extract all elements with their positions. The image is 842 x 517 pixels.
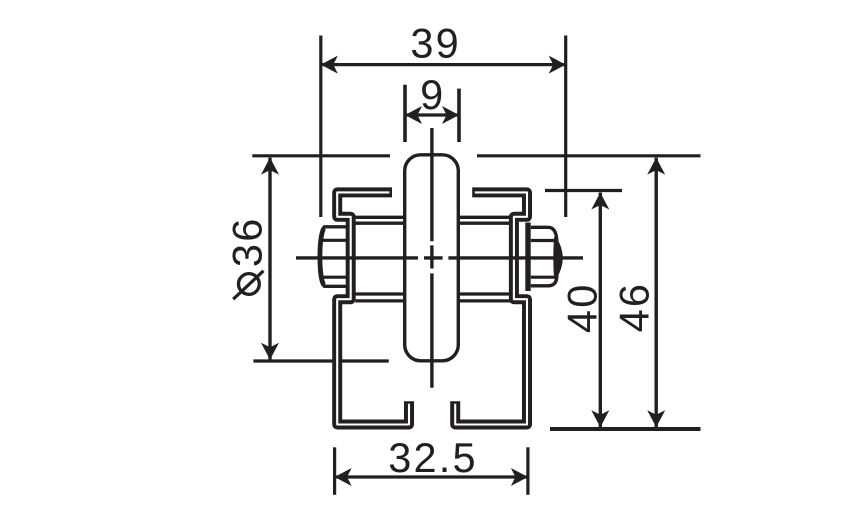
hex nut right outline bbox=[531, 227, 557, 285]
phi symbol slash of φ36 bbox=[233, 271, 263, 299]
arrowhead right of dim 39 bbox=[549, 56, 566, 74]
hub upper lines right bbox=[459, 217, 512, 223]
arrowhead bottom of dim φ36 bbox=[261, 343, 279, 360]
arrowhead bottom of dim 40 bbox=[591, 410, 609, 427]
dimension line 9 bbox=[405, 113, 459, 116]
extension line left of dim 32.5 bbox=[333, 447, 336, 495]
svg-text:39: 39 bbox=[410, 19, 461, 66]
hub lower lines right bbox=[459, 294, 512, 301]
arrowhead top of dim 46 bbox=[647, 158, 665, 175]
svg-text:32.5: 32.5 bbox=[388, 434, 478, 481]
arrowhead bottom of dim 46 bbox=[647, 410, 665, 427]
extension line right of dim 9 bbox=[457, 89, 461, 142]
hex bolt head left outline bbox=[320, 227, 349, 286]
hub lower lines left bbox=[356, 294, 405, 301]
dimension line φ36 bbox=[268, 158, 271, 360]
arrowhead left of dim 9 bbox=[405, 106, 422, 124]
dimension line 39 bbox=[321, 63, 566, 66]
phi symbol circle of φ36 bbox=[239, 274, 260, 295]
rail left half sheet profile (ink) bbox=[337, 192, 409, 424]
hex nut right facet lines bbox=[531, 241, 556, 278]
extension line left of dim 9 bbox=[403, 85, 407, 142]
rail right half sheet profile (ink) bbox=[455, 192, 527, 424]
svg-text:9: 9 bbox=[420, 71, 445, 118]
bottom reference line (for dims 40 and 46) bbox=[550, 427, 701, 431]
top tangent reference line right of roller bbox=[477, 154, 701, 157]
arrowhead left of dim 32.5 bbox=[335, 468, 352, 486]
extension line right of dim 39 bbox=[564, 36, 567, 218]
arrowhead right of dim 9 bbox=[442, 106, 459, 124]
rail right half sheet profile (white core) bbox=[455, 192, 527, 424]
hex bolt head left face bbox=[320, 229, 324, 285]
hex bolt head left facet lines bbox=[320, 240, 348, 277]
arrowhead right of dim 32.5 bbox=[511, 468, 528, 486]
arrowhead top of dim 40 bbox=[591, 193, 609, 210]
vertical centerline of axle bbox=[430, 128, 433, 388]
hub upper lines left bbox=[356, 217, 405, 223]
top tangent reference line left of roller bbox=[252, 154, 390, 157]
washer right bbox=[525, 223, 530, 292]
dimension line 46 bbox=[655, 158, 658, 428]
horizontal centerline of axle bbox=[296, 256, 583, 259]
dimension line 40 bbox=[599, 193, 602, 428]
roller wheel outline bbox=[405, 155, 459, 361]
arrowhead top of dim φ36 bbox=[261, 158, 279, 175]
svg-text:40: 40 bbox=[559, 283, 606, 334]
reference line at rail flange top (for dim 40) bbox=[545, 189, 622, 192]
extension line right of dim 32.5 bbox=[526, 447, 529, 495]
extension line left of dim 39 bbox=[319, 36, 322, 218]
hex nut right corner crescent (axle end) bbox=[555, 238, 562, 278]
arrowhead left of dim 39 bbox=[321, 56, 338, 74]
svg-text:36: 36 bbox=[224, 217, 271, 268]
dimension line 32.5 bbox=[335, 475, 528, 478]
rail left half sheet profile (white core) bbox=[337, 192, 409, 424]
bottom tangent reference line (roller bottom, for dim φ36) bbox=[253, 359, 388, 362]
svg-text:46: 46 bbox=[610, 282, 657, 333]
